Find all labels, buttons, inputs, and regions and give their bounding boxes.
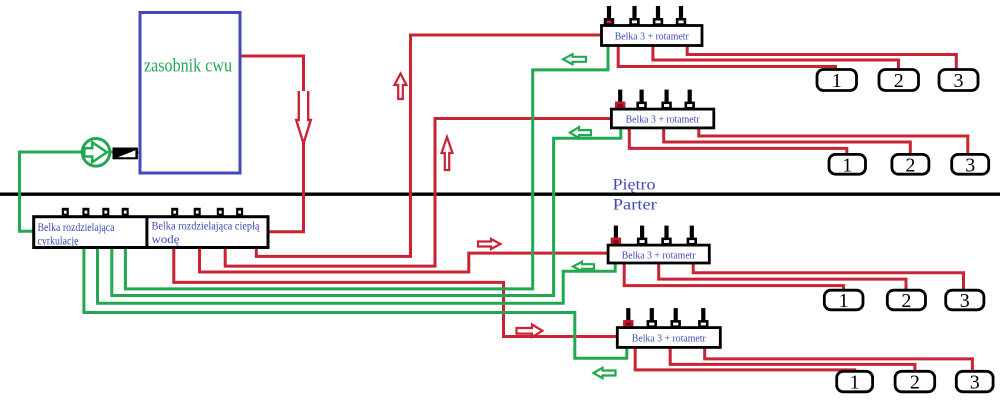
svg-text:cyrkulację: cyrkulację (38, 236, 79, 248)
svg-text:Parter: Parter (613, 197, 658, 214)
svg-text:zasobnik cwu: zasobnik cwu (144, 56, 232, 77)
svg-text:3: 3 (970, 372, 980, 394)
svg-text:2: 2 (894, 70, 904, 92)
svg-text:2: 2 (910, 372, 920, 394)
svg-text:3: 3 (960, 290, 970, 312)
svg-text:Belka 3 + rotametr: Belka 3 + rotametr (632, 333, 706, 345)
svg-text:Belka 3 + rotametr: Belka 3 + rotametr (622, 249, 696, 261)
svg-text:Belka 3 + rotametr: Belka 3 + rotametr (626, 114, 700, 126)
svg-text:1: 1 (850, 372, 860, 394)
svg-text:1: 1 (832, 70, 842, 92)
svg-text:3: 3 (954, 70, 964, 92)
svg-text:1: 1 (839, 290, 849, 312)
svg-text:Belka 3 + rotametr: Belka 3 + rotametr (615, 31, 689, 43)
svg-text:Belka rozdzielająca ciepłą: Belka rozdzielająca ciepłą (152, 221, 261, 233)
svg-text:2: 2 (905, 154, 915, 176)
svg-text:Belka rozdzielająca: Belka rozdzielająca (38, 222, 115, 234)
svg-text:1: 1 (842, 154, 852, 176)
svg-text:3: 3 (965, 154, 975, 176)
svg-text:2: 2 (901, 290, 911, 312)
svg-text:Piętro: Piętro (613, 177, 656, 194)
svg-text:wodę: wodę (152, 234, 180, 246)
